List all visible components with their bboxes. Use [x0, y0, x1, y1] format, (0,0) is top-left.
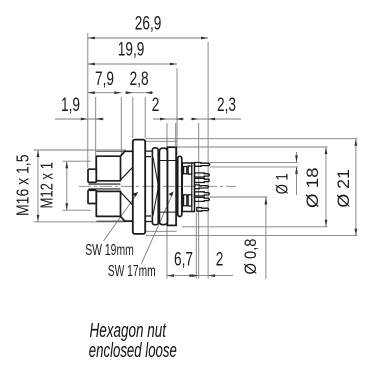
- dimension 1,9: [55, 94, 104, 120]
- leader SW 19mm: [85, 192, 138, 259]
- insulator body: [182, 162, 194, 212]
- solder pin 2: [195, 173, 210, 177]
- flange: [178, 156, 182, 216]
- dimension diameter 21: [334, 139, 358, 236]
- dimension 19,9: [88, 39, 177, 66]
- dimension diameter 1: [273, 152, 298, 195]
- svg-text:Ø 18: Ø 18: [303, 168, 322, 209]
- svg-text:Ø 21: Ø 21: [334, 169, 353, 208]
- dimension 6,7: [167, 249, 196, 278]
- solder pin 7: [197, 208, 209, 212]
- svg-text:2: 2: [152, 94, 160, 116]
- thread crest lines M16: [96, 151, 126, 221]
- dimension diameter 18: [303, 147, 327, 227]
- svg-text:6,7: 6,7: [174, 249, 193, 271]
- cone transition to hex: [121, 151, 133, 221]
- solder pin 4 center: [195, 185, 209, 189]
- dimension 2,3: [191, 94, 242, 120]
- centerline: [79, 185, 236, 187]
- svg-text:1,9: 1,9: [61, 94, 80, 116]
- dimension 2,8: [125, 68, 154, 94]
- svg-text:26,9: 26,9: [135, 13, 162, 35]
- svg-text:2,8: 2,8: [130, 68, 149, 90]
- extension lines: [34, 33, 358, 279]
- svg-text:19,9: 19,9: [118, 39, 145, 61]
- note hexagon nut enclosed loose: [89, 320, 177, 362]
- socket body blocks: [89, 156, 121, 216]
- hexagon SW17: [167, 147, 176, 225]
- contact blocks left: [88, 169, 96, 203]
- collar step behind nut: [145, 151, 152, 221]
- svg-text:M12 x 1: M12 x 1: [37, 162, 57, 209]
- svg-text:M16 x 1,5: M16 x 1,5: [13, 155, 33, 217]
- solder pin 6: [195, 197, 210, 201]
- dimension 2 bottom: [192, 249, 234, 278]
- svg-text:Hexagon nut: Hexagon nut: [90, 320, 167, 342]
- gasket ring: [159, 148, 176, 224]
- solder pin 1: [195, 163, 210, 167]
- leader SW 17mm: [108, 191, 174, 280]
- svg-text:7,9: 7,9: [95, 68, 114, 90]
- dimension M16 x 1,5: [13, 150, 40, 222]
- svg-text:2,3: 2,3: [217, 94, 236, 116]
- hexagon nut SW19: [133, 140, 145, 234]
- svg-text:Ø 1: Ø 1: [273, 173, 292, 194]
- dimension 7,9: [88, 68, 122, 94]
- svg-text:Ø 0,8: Ø 0,8: [241, 239, 260, 275]
- dimension 26,9: [88, 13, 208, 40]
- seal washer: [152, 148, 158, 225]
- dimension diameter 0,8: [210, 197, 268, 279]
- solder pin 5: [195, 192, 210, 196]
- svg-text:SW 19mm: SW 19mm: [85, 242, 134, 259]
- solder pin 3: [195, 178, 210, 182]
- svg-text:enclosed loose: enclosed loose: [89, 340, 177, 362]
- dimension M12 x 1: [37, 161, 69, 210]
- svg-text:SW 17mm: SW 17mm: [108, 263, 156, 280]
- svg-text:2: 2: [216, 249, 224, 271]
- dimension 2 top: [152, 94, 184, 120]
